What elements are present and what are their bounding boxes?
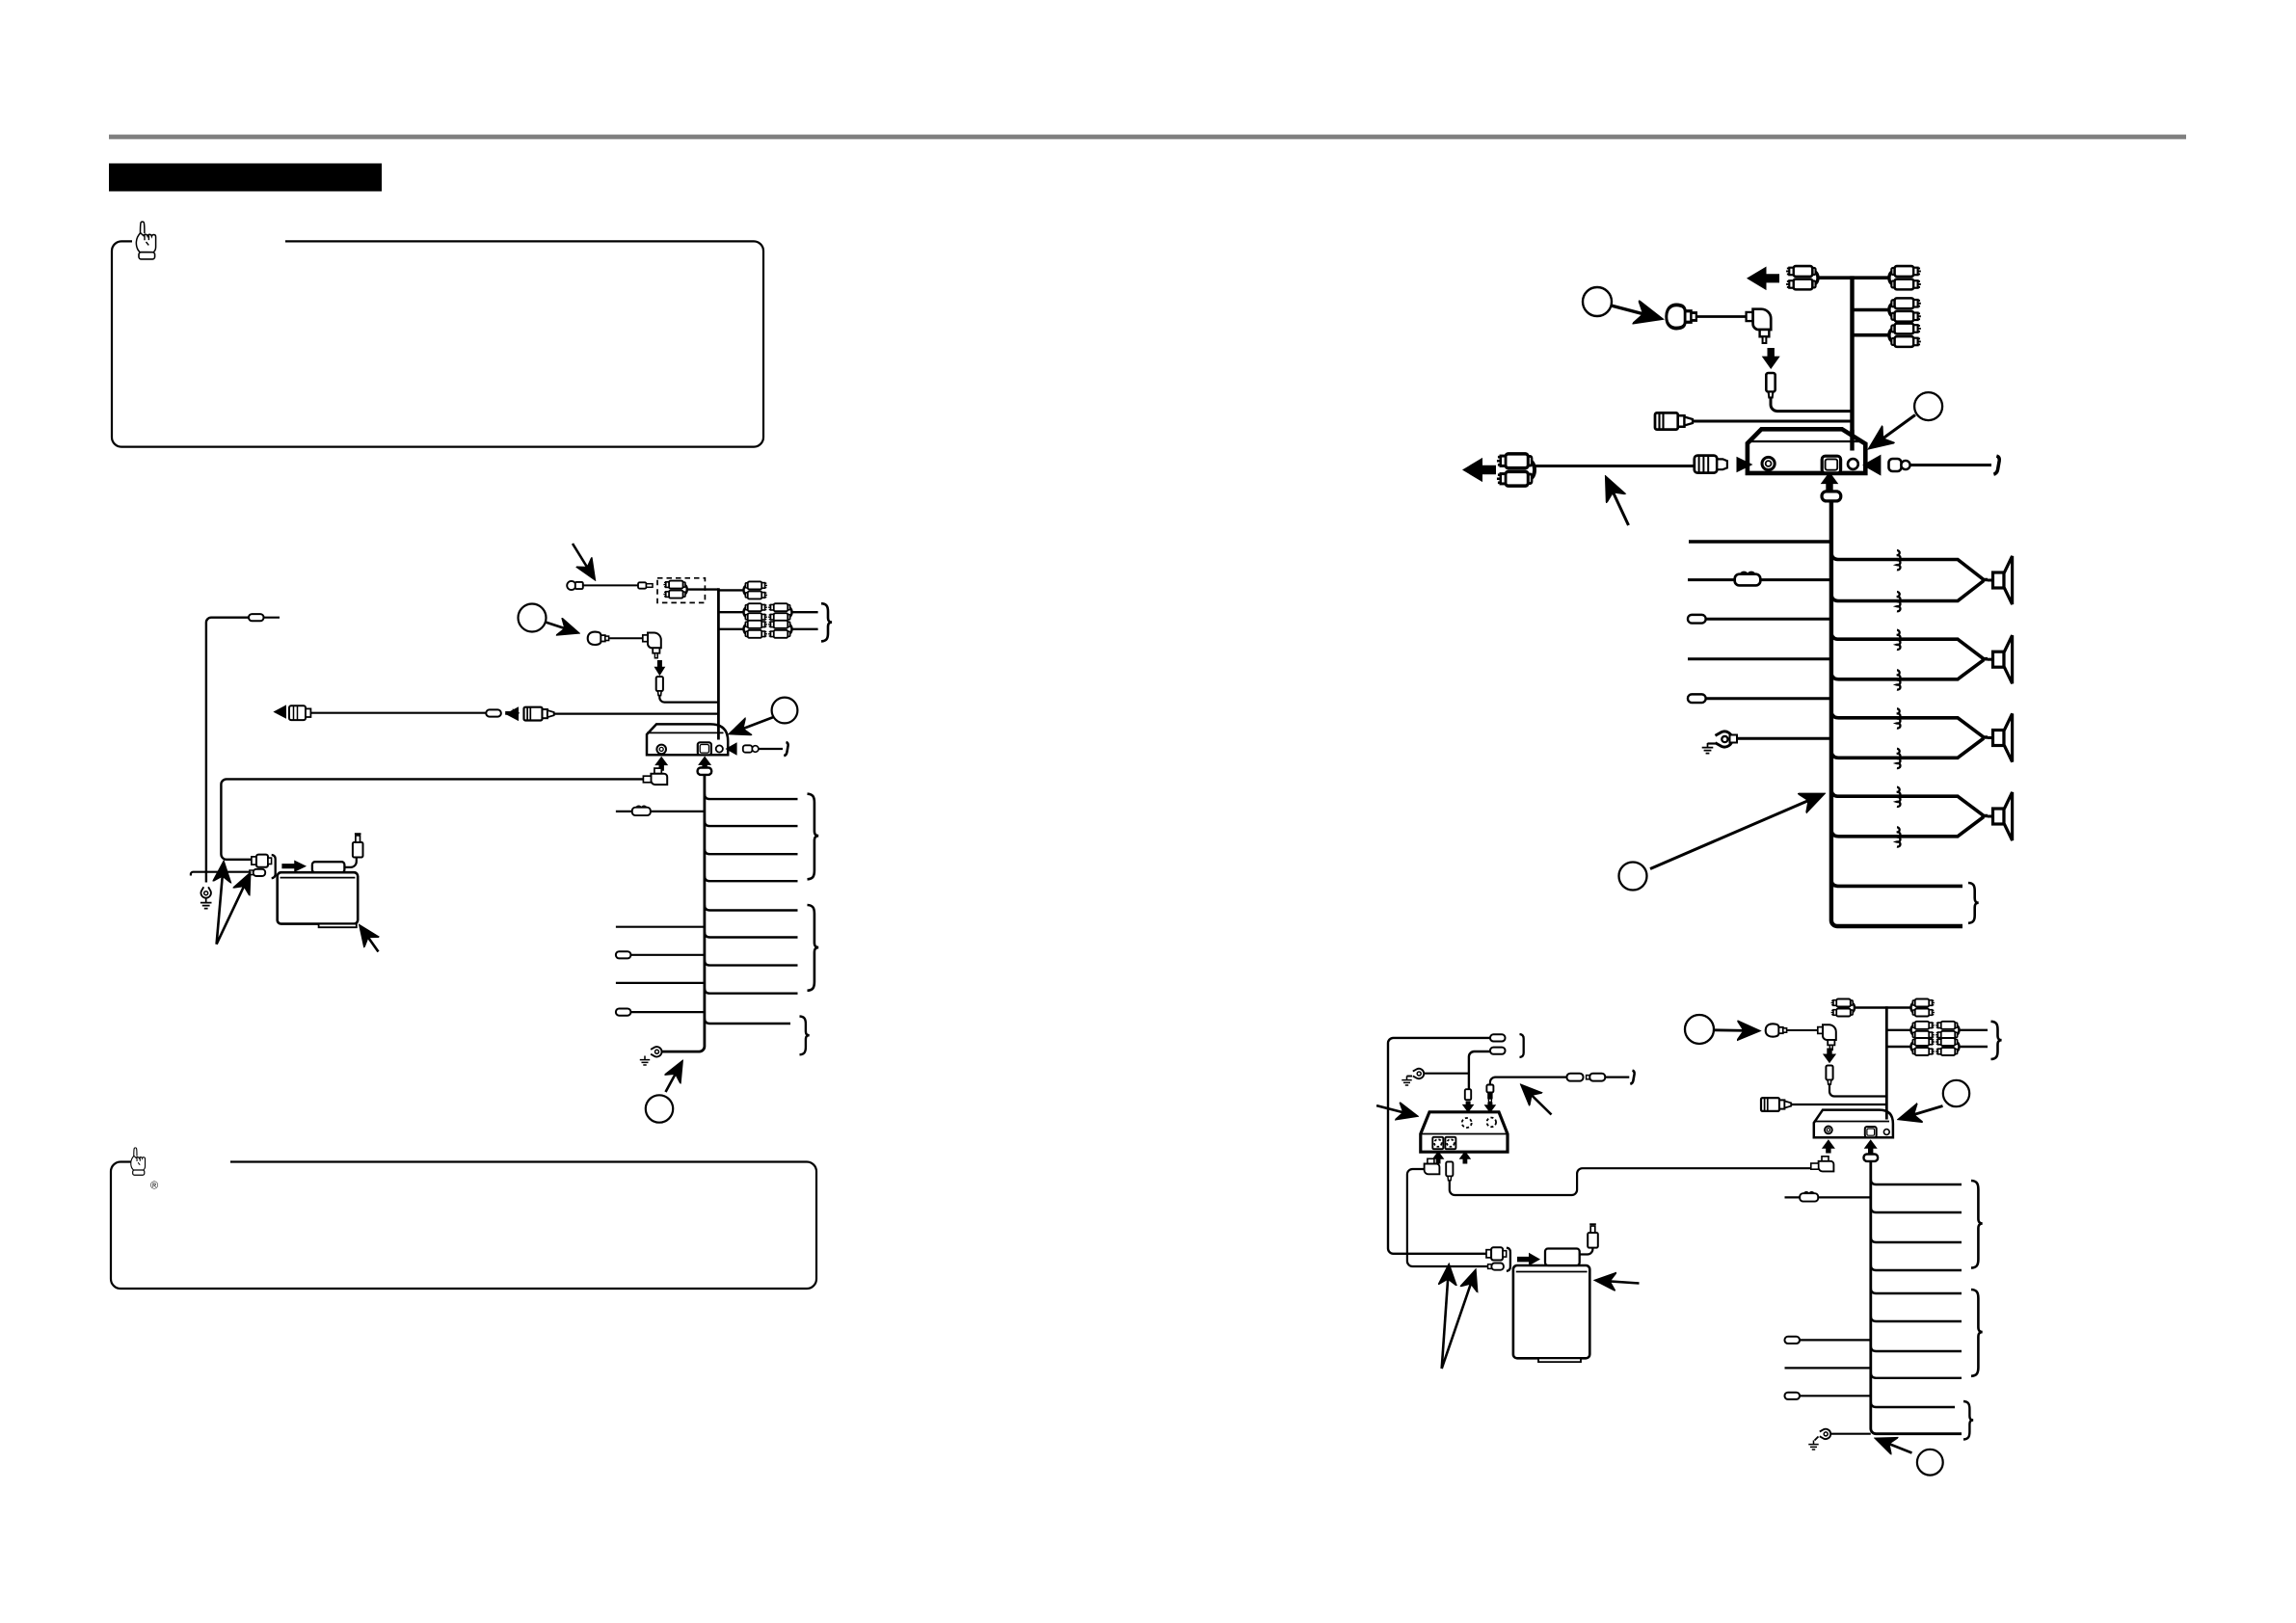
- h3 wire 8: [1871, 1372, 1962, 1378]
- speaker 1: [1988, 556, 2013, 604]
- callout arrow to antenna cord: [573, 544, 593, 576]
- wire DIN cable: [1535, 465, 1695, 467]
- arrow left at DIN cord: [273, 705, 286, 718]
- trunk line out 2: [1850, 276, 1854, 447]
- arrow to harness 2: [1650, 796, 1820, 869]
- wire row A right: [792, 611, 818, 613]
- ring terminal vertical: [201, 887, 211, 897]
- left wire bullet A: [1688, 615, 1706, 624]
- hand icon 2: [131, 1148, 146, 1175]
- harness wire 9: [705, 1019, 790, 1024]
- power plug into box: [1465, 1089, 1471, 1100]
- RCA couple row 3: [1889, 324, 1921, 347]
- right-angle plug below unit: [654, 768, 661, 774]
- power adapter box: [278, 872, 359, 923]
- DIN cable connector 2: [1695, 456, 1718, 473]
- crossover feed wire 2: [1469, 1051, 1490, 1090]
- wire power lead: [759, 748, 783, 750]
- crossover network box: [1421, 1112, 1508, 1152]
- arrow down into box b: [1484, 1103, 1497, 1113]
- double arrow 1: [217, 865, 224, 945]
- power lead connector 2: [1889, 459, 1902, 471]
- arrow down 3: [1823, 1049, 1836, 1064]
- unit 2 harness port: [1822, 456, 1840, 473]
- registered mark: [150, 1181, 158, 1192]
- wire bell to elbow 2: [1696, 315, 1748, 318]
- wire coupler to bar: [1605, 1076, 1629, 1078]
- tail wire 1: [1831, 879, 1962, 886]
- ground wire 3: [1424, 1073, 1469, 1075]
- h3 wire 7: [1871, 1346, 1962, 1352]
- left wire plain 3: [1785, 1367, 1871, 1369]
- unit 2 power socket: [1848, 459, 1858, 469]
- dashed socket a: [1462, 1118, 1472, 1128]
- antenna adapter socket 3: [1761, 1098, 1791, 1111]
- h3 wire 5: [1871, 1289, 1962, 1294]
- harness wire 7: [705, 960, 798, 966]
- ring terminal: [651, 1047, 661, 1056]
- unit 3 power socket: [1883, 1130, 1889, 1135]
- ferrite core: [698, 768, 712, 775]
- speaker 2 wire a: [1831, 632, 1988, 659]
- fuse wire 2: [1688, 578, 1736, 581]
- circle callout A: [772, 698, 798, 724]
- wire plug to trunk: [659, 696, 718, 703]
- wire pair to trunk: [1818, 276, 1889, 279]
- arrow right DIN 2: [1737, 457, 1753, 473]
- arrow up DIN 3: [1822, 1139, 1835, 1153]
- connector row 1 plug: [252, 857, 256, 865]
- wire row B: [718, 628, 743, 630]
- arrow left antenna lead: [505, 706, 519, 721]
- top rule: [109, 135, 2186, 140]
- harness wire 1: [705, 794, 798, 800]
- ground wire: [661, 1051, 667, 1052]
- arrow up out a: [1432, 1151, 1445, 1163]
- speaker 4 wire b: [1831, 817, 1984, 837]
- right-angle plug: [643, 633, 661, 658]
- arrow to trunk bottom: [666, 1065, 681, 1093]
- arrow right to adapter: [505, 708, 520, 717]
- arrow left power: [726, 742, 737, 756]
- cord coupler male: [1567, 1074, 1584, 1081]
- arrow to trunk bottom 3: [1880, 1440, 1912, 1453]
- antenna cord plug: [567, 581, 575, 590]
- straight plug: [656, 677, 663, 696]
- connector row 2: [250, 870, 254, 875]
- wire to trunk: [687, 588, 719, 590]
- svg-text:®: ®: [150, 1181, 158, 1192]
- harness trunk 3: [1871, 1161, 1962, 1434]
- speaker 4: [1988, 792, 2013, 840]
- straight plug 2: [1766, 373, 1775, 397]
- wire antenna cord: [583, 584, 638, 586]
- wire to connector row 2: [191, 872, 250, 876]
- RCA couple row 2: [1889, 298, 1921, 321]
- unit 1 harness port: [698, 742, 711, 755]
- speaker 3 wire a: [1831, 710, 1988, 737]
- AC plug 2: [1588, 1224, 1598, 1247]
- ferrite core 3: [1864, 1155, 1879, 1161]
- bullet feed 2: [1490, 1048, 1506, 1054]
- circle callout A2: [1914, 392, 1942, 420]
- wire adapter to trunk: [554, 712, 719, 714]
- cord coupler female: [1587, 1076, 1590, 1079]
- harness wire 8: [705, 988, 798, 994]
- harness trunk 2: [1831, 501, 1962, 926]
- note box 1: [112, 241, 763, 446]
- arrow down 2: [1762, 348, 1780, 369]
- mini jack bell plug: [588, 632, 609, 645]
- left wire bullet 2: [616, 1009, 631, 1016]
- double arrow 4: [1442, 1274, 1475, 1370]
- AC plug: [353, 834, 363, 857]
- straight plug out: [1446, 1161, 1453, 1176]
- unit 1 body: [647, 724, 728, 755]
- wire DIN to bullet: [310, 712, 486, 714]
- harness wire 4: [705, 876, 798, 882]
- RCA couple row A right: [768, 603, 791, 621]
- arrow up harness: [698, 757, 711, 770]
- ring terminal 3: [1413, 1069, 1424, 1078]
- harness wire 2: [705, 821, 798, 827]
- circle callout B2: [1583, 287, 1612, 316]
- note box 2: [111, 1162, 816, 1290]
- arrow from circle: [546, 623, 575, 632]
- left wire plain 2: [616, 982, 705, 984]
- ring terminal 3b: [1820, 1429, 1830, 1439]
- left wire bullet 3b: [1785, 1393, 1801, 1399]
- left wire bullet B: [1688, 694, 1706, 703]
- DIN plug: [289, 705, 306, 720]
- mini jack bell plug 3: [1766, 1024, 1787, 1036]
- ferrite core 2: [1822, 492, 1841, 501]
- wire bell to elbow 3: [1787, 1029, 1818, 1031]
- wire plug to trunk 2: [1771, 398, 1853, 412]
- brace group 2: [808, 905, 819, 991]
- arrow to adapter corner: [362, 929, 379, 952]
- connector pair row 1: [1486, 1250, 1491, 1258]
- antenna adapter socket 2: [1655, 412, 1693, 429]
- straight plug 3: [1826, 1066, 1832, 1085]
- circle callout C: [646, 1095, 673, 1122]
- trunk into unit 1: [717, 725, 720, 740]
- RCA couple row B left: [744, 621, 767, 638]
- coils 3: [1897, 708, 1901, 728]
- wire row 2: [1853, 308, 1889, 312]
- wire out a down: [1407, 1169, 1491, 1266]
- arrow circle to unit 3: [1903, 1106, 1943, 1119]
- wire row B right: [792, 628, 818, 630]
- h3 wire 4: [1871, 1265, 1962, 1271]
- brace h3 group 3: [1963, 1401, 1973, 1440]
- wire row 3 d3: [1886, 1046, 1910, 1048]
- ground wire 3b: [1829, 1433, 1871, 1435]
- wire power lead 2: [1910, 464, 1991, 466]
- RCA couple top right 3: [1911, 999, 1935, 1017]
- unit 3 harness port: [1865, 1127, 1877, 1137]
- circle callout B: [519, 604, 547, 632]
- speaker 4 wire a: [1831, 789, 1988, 816]
- coils 1: [1897, 550, 1901, 570]
- bullet lead: [486, 709, 501, 716]
- speaker 2: [1988, 635, 2013, 683]
- RCA couple row 1: [1889, 266, 1921, 289]
- arrow left big 2: [1462, 458, 1496, 482]
- h3 wire 9: [1871, 1402, 1955, 1408]
- brace rows AB: [821, 603, 832, 641]
- arrow up harness 2: [1821, 472, 1839, 491]
- circle callout C3: [1917, 1450, 1943, 1476]
- RCA couple row A left: [744, 603, 767, 621]
- RCA plug into box: [1486, 1085, 1493, 1093]
- cord end bar: [1630, 1071, 1634, 1084]
- long wire to changer: [221, 779, 643, 859]
- battery cord bullet: [249, 614, 264, 621]
- arrow right to adapter: [281, 860, 307, 871]
- crossover feed wire 1: [1388, 1038, 1490, 1254]
- arrow left big: [1747, 267, 1779, 291]
- circle callout A3: [1943, 1080, 1969, 1106]
- left wire plain A: [1688, 657, 1831, 660]
- speaker 3: [1988, 714, 2013, 762]
- right-angle plug 3: [1818, 1024, 1836, 1050]
- trunk line out: [717, 588, 720, 727]
- right-angle plug 2: [1747, 309, 1772, 343]
- antenna cord mini plug: [638, 582, 647, 588]
- dashed box: [657, 578, 705, 603]
- brace tail 2: [1968, 883, 1979, 923]
- ring terminal 2: [1715, 732, 1732, 747]
- power adapter box 2: [1513, 1265, 1589, 1358]
- RCA pair left out: [1786, 266, 1818, 289]
- harness wire 5: [705, 905, 798, 911]
- h3 wire 1: [1871, 1180, 1962, 1185]
- arrow up harness 3: [1864, 1139, 1878, 1153]
- coils 4: [1897, 787, 1901, 807]
- left wire bullet 1: [616, 951, 631, 958]
- power lead connector: [743, 745, 753, 752]
- arrow to adapter 2: [1599, 1281, 1640, 1284]
- wire pair to trunk 3: [1855, 1006, 1911, 1008]
- unit 2 DIN socket: [1762, 457, 1775, 469]
- wire adapter to trunk 3: [1791, 1104, 1886, 1105]
- wire row 2 d3: [1886, 1029, 1910, 1031]
- arrow circle to unit: [734, 717, 774, 732]
- wire plug to trunk 3: [1829, 1084, 1886, 1096]
- power lead end bar: [784, 742, 788, 756]
- arrow circle to bell 3: [1715, 1028, 1756, 1031]
- arrow down into box a: [1462, 1102, 1475, 1113]
- brace rows d3: [1991, 1022, 2002, 1059]
- brace group 1: [808, 794, 819, 880]
- adapter cord to plug: [344, 858, 356, 867]
- harness trunk: [662, 775, 705, 1051]
- left wire plain 1: [616, 926, 705, 928]
- wire top couple: [718, 589, 743, 591]
- harness wire 3: [705, 849, 798, 855]
- arrow circle to unit 2: [1873, 415, 1915, 446]
- bracket connectors 2: [1507, 1248, 1510, 1271]
- bullet feed 1: [1490, 1034, 1506, 1041]
- right-angle plug below unit 3: [1822, 1157, 1829, 1161]
- hand icon 1: [136, 222, 155, 259]
- double arrow 2: [217, 877, 249, 945]
- fuse wire: [616, 811, 632, 812]
- RCA pair top left 3: [1831, 999, 1855, 1017]
- RCA pair monitor out: [1497, 454, 1535, 486]
- harness wire 6: [705, 932, 798, 938]
- bracket connectors: [272, 855, 276, 878]
- arrow down: [654, 660, 666, 676]
- arrow to crossover: [1376, 1105, 1413, 1115]
- wire adapter to trunk 2: [1693, 420, 1853, 423]
- arrow up out b: [1459, 1151, 1472, 1163]
- speaker 1 wire b: [1831, 581, 1984, 601]
- left wire bullet 3a: [1785, 1337, 1801, 1344]
- brace h3 group 2: [1971, 1290, 1983, 1376]
- box port a: [1432, 1137, 1443, 1149]
- box port b: [1445, 1137, 1455, 1149]
- brace group 3: [800, 1017, 810, 1055]
- accessory wire: [1689, 540, 1831, 544]
- coils 2: [1897, 630, 1901, 650]
- h3 wire 6: [1871, 1317, 1962, 1322]
- wire bell to elbow: [609, 637, 643, 639]
- arrow left power 2: [1862, 455, 1881, 476]
- RCA couple row B right: [768, 621, 791, 638]
- wire row 3: [1853, 333, 1889, 337]
- circle callout B3: [1685, 1015, 1714, 1044]
- battery cord vertical: [206, 618, 249, 883]
- speaker 3 wire b: [1831, 738, 1984, 758]
- unit 3 DIN socket: [1825, 1127, 1832, 1134]
- arrow right to adapter 2: [1517, 1253, 1540, 1266]
- circle callout C2: [1619, 863, 1647, 891]
- fuse wire 3: [1785, 1196, 1802, 1198]
- h3 wire 2: [1871, 1208, 1962, 1213]
- arrow up DIN: [654, 757, 668, 771]
- right-angle plug out: [1428, 1158, 1434, 1163]
- trunk into unit 3: [1885, 1111, 1888, 1120]
- wire row A: [718, 611, 743, 613]
- adapter cord to plug 2: [1580, 1248, 1593, 1255]
- trunk into unit 2: [1850, 430, 1854, 451]
- unit 3 body: [1814, 1110, 1893, 1138]
- arrow circle to bell: [1612, 306, 1658, 318]
- h3 wire 3: [1871, 1237, 1962, 1243]
- unit 2 body: [1748, 429, 1865, 473]
- ground wire 2: [1729, 737, 1831, 740]
- arrow to DIN cord: [1608, 481, 1629, 525]
- RCA couple in dashed box: [663, 581, 686, 599]
- power lead end bar 2: [1993, 456, 1999, 474]
- connector pair row 2: [1488, 1264, 1492, 1269]
- RCA couple top: [744, 581, 767, 599]
- brace h3 group 1: [1971, 1181, 1983, 1268]
- trunk line out 3: [1885, 1006, 1888, 1118]
- double arrow 3: [1442, 1268, 1449, 1369]
- wire RCA cord right: [1490, 1078, 1567, 1085]
- mini jack bell plug 2: [1667, 305, 1696, 328]
- bracket feeds: [1520, 1034, 1524, 1057]
- unit 1 DIN socket: [656, 745, 666, 755]
- speaker 1 wire a: [1831, 552, 1988, 580]
- wire out b to unit: [1450, 1168, 1810, 1195]
- speaker 2 wire b: [1831, 660, 1984, 679]
- arrow to RCA cord: [1524, 1088, 1552, 1115]
- dashed socket b: [1487, 1118, 1497, 1128]
- title bar: [109, 164, 382, 192]
- antenna adapter socket: [524, 707, 554, 721]
- unit 1 power socket: [716, 745, 723, 752]
